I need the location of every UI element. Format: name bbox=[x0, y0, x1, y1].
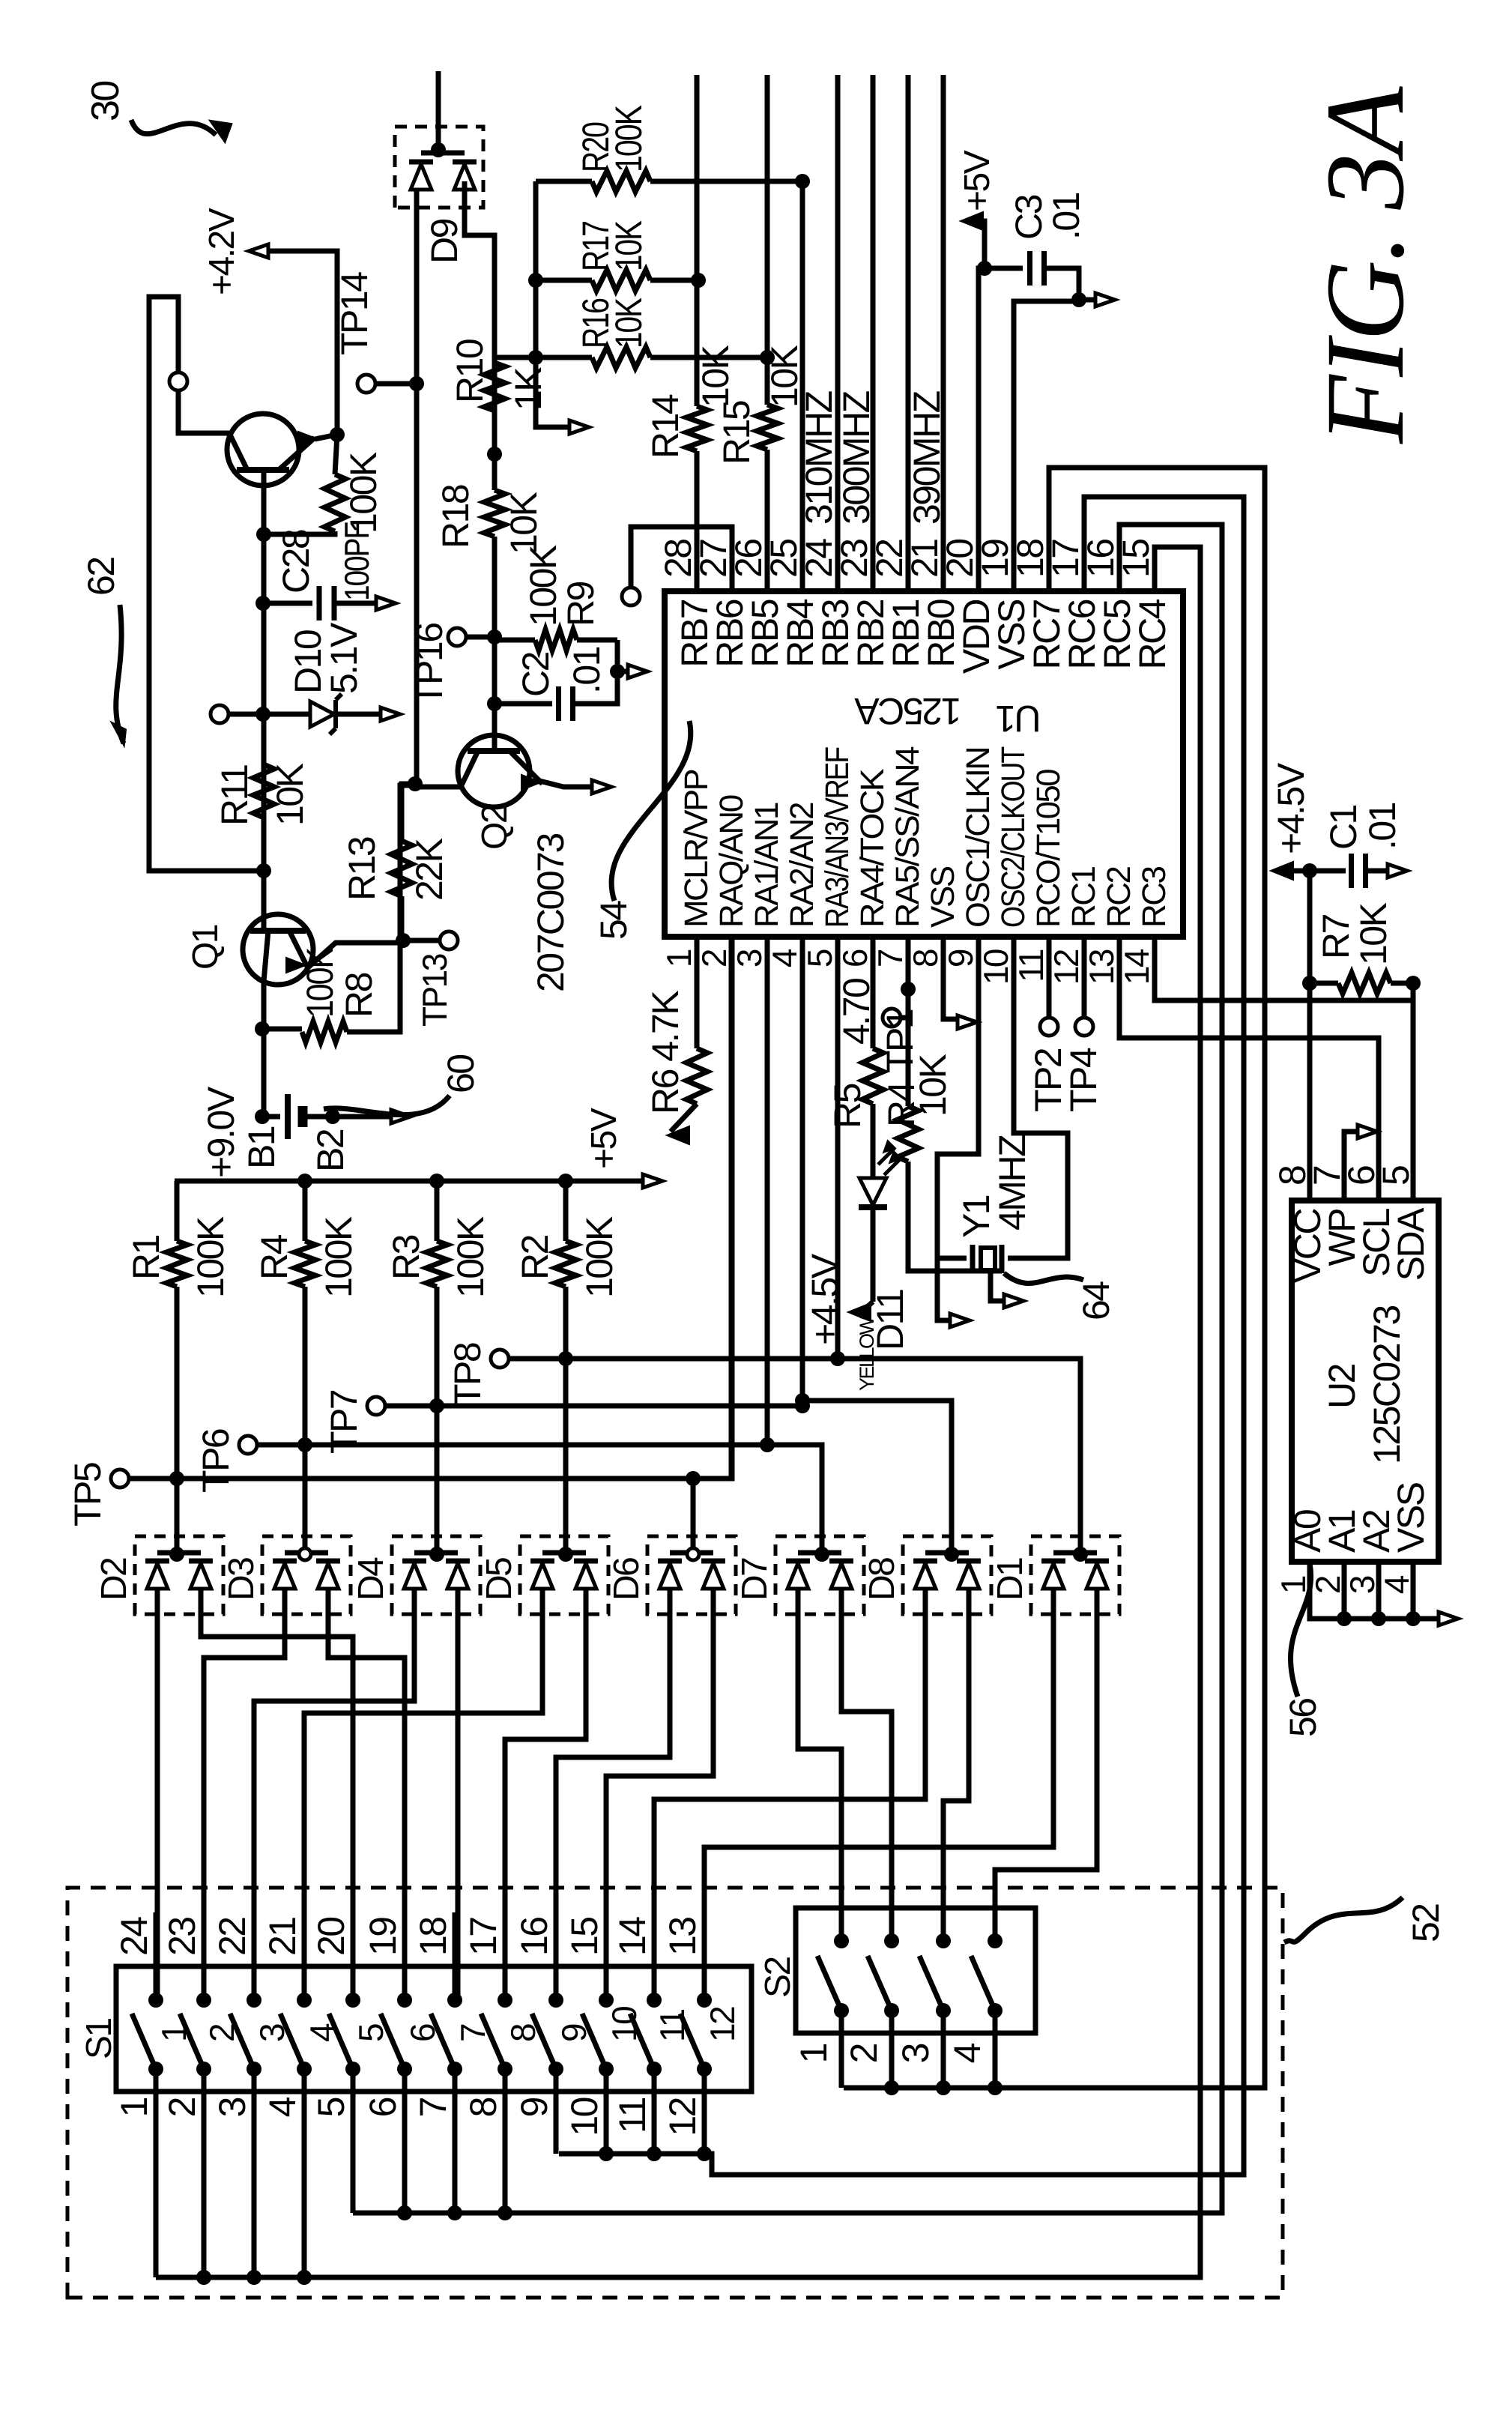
S2 bottom wire 2 bbox=[889, 2011, 895, 2088]
S1 top pin 17 wire bbox=[503, 1966, 508, 2000]
D6 diode b bbox=[703, 1563, 724, 1589]
svg-text:52: 52 bbox=[1405, 1904, 1447, 1942]
R16/R17/R20 bus bbox=[536, 181, 577, 427]
svg-text:14: 14 bbox=[1117, 949, 1156, 985]
svg-text:RA5/SS/AN4: RA5/SS/AN4 bbox=[889, 746, 926, 928]
wire pin15 long line to S1 1-4 bbox=[156, 547, 1200, 2277]
svg-text:7: 7 bbox=[871, 949, 910, 967]
svg-text:.01: .01 bbox=[566, 647, 608, 694]
wire pin18 long line to S2 bbox=[844, 468, 1265, 2088]
svg-text:100K: 100K bbox=[578, 1216, 620, 1298]
test point TP16 bbox=[448, 628, 466, 646]
svg-text:+4.5V: +4.5V bbox=[804, 1253, 846, 1345]
svg-text:MCLR/VPP: MCLR/VPP bbox=[678, 770, 715, 928]
S1 top pin 19 wire bbox=[402, 1966, 408, 2000]
svg-text:207C0073: 207C0073 bbox=[530, 834, 572, 992]
svg-text:2: 2 bbox=[1308, 1576, 1347, 1594]
svg-text:10: 10 bbox=[563, 2098, 605, 2136]
battery B1/B2 +9.0V bbox=[255, 1109, 270, 1124]
test point TP6 bbox=[239, 1436, 257, 1454]
D2 diode b bbox=[190, 1563, 211, 1589]
ground arrow VSS pin8 bbox=[958, 1015, 977, 1029]
+4.5V arrow (row6) bbox=[848, 1303, 871, 1321]
svg-text:4: 4 bbox=[1377, 1575, 1416, 1594]
svg-text:5: 5 bbox=[1375, 1166, 1417, 1186]
S1 switch 3 bbox=[247, 1993, 261, 2008]
svg-text:.01: .01 bbox=[1045, 193, 1087, 240]
svg-text:1: 1 bbox=[659, 949, 698, 967]
dual diode D2 dashed box bbox=[135, 1536, 223, 1614]
wire pin3 row to TP6 column bbox=[767, 937, 822, 1539]
svg-text:+9.0V: +9.0V bbox=[200, 1086, 242, 1178]
S1 top pin 22 wire bbox=[252, 1966, 257, 2000]
capacitor C3 .01 bbox=[985, 266, 1023, 271]
harness wire anode y952 to row y809 bbox=[606, 1614, 713, 2000]
svg-text:R7: R7 bbox=[1315, 914, 1357, 959]
svg-text:100K: 100K bbox=[190, 1216, 232, 1298]
transistor QT (62 block) bbox=[227, 414, 299, 486]
svg-text:62: 62 bbox=[80, 558, 122, 596]
svg-text:4: 4 bbox=[946, 2043, 988, 2063]
svg-text:FIG. 3A: FIG. 3A bbox=[1303, 85, 1427, 444]
resistor R6 4.7K bbox=[686, 1048, 707, 1104]
wire Q1 collector to battery bbox=[261, 979, 267, 1117]
harness wire anode y210 to row y208 bbox=[155, 1614, 160, 2000]
svg-text:RA4/TOCK: RA4/TOCK bbox=[854, 769, 891, 928]
D7 diode a bbox=[787, 1563, 808, 1589]
D2 diode a bbox=[147, 1563, 168, 1589]
resistor R16 10K bbox=[536, 355, 592, 360]
S1 top pin 14 wire bbox=[652, 1966, 657, 2000]
svg-text:R4: R4 bbox=[253, 1234, 295, 1280]
wire pin13 RC2 row to U2 SCL bbox=[1119, 937, 1379, 1201]
svg-text:+4.2V: +4.2V bbox=[202, 208, 242, 295]
node 62 feedback loop bbox=[256, 863, 271, 878]
ground arrow below B2 bbox=[391, 1110, 411, 1123]
svg-text:100K: 100K bbox=[608, 105, 650, 172]
svg-text:4.70: 4.70 bbox=[835, 979, 877, 1045]
svg-text:RCO/T1050: RCO/T1050 bbox=[1030, 770, 1067, 928]
svg-text:10K: 10K bbox=[1352, 902, 1394, 965]
ground arrow crystal bbox=[991, 1273, 1004, 1301]
svg-text:16: 16 bbox=[513, 1918, 555, 1956]
switch S1 box bbox=[116, 1966, 752, 2092]
resistor R17 10K bbox=[536, 278, 592, 283]
ground arrow C2/R9 bbox=[617, 669, 628, 674]
wire pin21 RB0 row bbox=[941, 75, 946, 591]
svg-text:R5: R5 bbox=[826, 1084, 868, 1129]
svg-text:+4.5V: +4.5V bbox=[1270, 762, 1312, 854]
resistor R8 100K bbox=[255, 1021, 270, 1036]
S1 switch 4 bbox=[297, 1993, 312, 2008]
node Q2 base / C2-R9 bbox=[487, 696, 502, 711]
S1 bottom tie 5-8 bbox=[351, 2069, 356, 2213]
svg-text:B2: B2 bbox=[309, 1129, 351, 1172]
svg-text:R8: R8 bbox=[338, 973, 380, 1018]
test point TP13 bbox=[440, 931, 458, 949]
resistor R3 100K row bbox=[435, 1181, 440, 1241]
D3 cathode tie bbox=[285, 1550, 328, 1556]
IC U1 box bbox=[665, 591, 1183, 937]
svg-text:RC4: RC4 bbox=[1131, 599, 1173, 669]
wire pin4 row to TP7 column and D8 feed bbox=[802, 937, 952, 1539]
wire pin7 RA5 row with R4 10K and TP1 bbox=[906, 937, 911, 1106]
svg-text:15: 15 bbox=[563, 1918, 605, 1956]
S1 top pin 20 wire bbox=[351, 1966, 356, 2000]
svg-text:RA1/AN1: RA1/AN1 bbox=[749, 803, 785, 928]
S2 switch 2 bbox=[884, 1933, 899, 1948]
D3 anode wires bbox=[282, 1589, 288, 1614]
svg-text:1: 1 bbox=[793, 2044, 835, 2063]
D8 diode a bbox=[915, 1563, 936, 1589]
resistor R9 100K bbox=[495, 638, 535, 643]
svg-text:C28: C28 bbox=[275, 530, 317, 594]
svg-text:22K: 22K bbox=[408, 838, 450, 901]
svg-text:60: 60 bbox=[440, 1055, 482, 1093]
svg-text:B1: B1 bbox=[241, 1126, 282, 1169]
S1 switch 6 bbox=[397, 1993, 412, 2008]
svg-text:21: 21 bbox=[261, 1918, 303, 1956]
svg-text:R14: R14 bbox=[644, 394, 686, 459]
svg-text:10K: 10K bbox=[608, 298, 650, 348]
wire pin19 VSS row to ground bbox=[1014, 301, 1079, 591]
svg-text:TP6: TP6 bbox=[195, 1429, 237, 1493]
svg-text:100K: 100K bbox=[450, 1216, 492, 1298]
wire D9 anode2 jog to R18 node bbox=[465, 181, 495, 454]
svg-text:100K: 100K bbox=[342, 452, 384, 534]
D7 anode wires bbox=[796, 1589, 801, 1614]
D4 diode b bbox=[447, 1563, 468, 1589]
svg-text:D3: D3 bbox=[222, 1558, 261, 1601]
wire pin5 row to TP8 column and D1 feed bbox=[838, 937, 1080, 1535]
capacitor C28 100PF branch bbox=[255, 596, 270, 611]
svg-text:S1: S1 bbox=[79, 2018, 119, 2059]
harness wire anode y724 to row y406 bbox=[304, 1614, 542, 2000]
wire Q1 base bus bbox=[261, 474, 267, 925]
harness wire anode y894 to row y742 bbox=[556, 1614, 670, 2000]
D4 anode wires bbox=[412, 1589, 417, 1614]
svg-text:R13: R13 bbox=[341, 837, 383, 901]
test point TP1 bbox=[883, 1009, 901, 1027]
svg-text:D7: D7 bbox=[735, 1558, 775, 1601]
dashed enclosure 52 bbox=[67, 1888, 1283, 2298]
transistor Q1 bbox=[243, 914, 313, 985]
ground arrow VSS pin19 bbox=[1095, 293, 1115, 306]
svg-text:5: 5 bbox=[800, 949, 839, 967]
D7 diode b bbox=[831, 1563, 852, 1589]
dual diode D6 dashed box bbox=[647, 1536, 736, 1614]
S1 top pin 16 wire bbox=[554, 1966, 559, 2000]
svg-text:RC2: RC2 bbox=[1101, 866, 1137, 928]
svg-text:4: 4 bbox=[261, 2097, 303, 2117]
svg-text:4MHZ: 4MHZ bbox=[991, 1135, 1033, 1230]
resistor R4 100K row bbox=[303, 1181, 308, 1241]
svg-text:VSS: VSS bbox=[1390, 1482, 1432, 1553]
svg-text:12: 12 bbox=[1047, 949, 1086, 985]
S1 switch 11 bbox=[647, 1993, 662, 2008]
D1 diode a bbox=[1043, 1563, 1064, 1589]
+5V bus vertical bbox=[175, 1179, 641, 1184]
svg-text:10K: 10K bbox=[912, 1054, 954, 1117]
svg-text:12: 12 bbox=[703, 2007, 742, 2042]
wire U2 address pins tie to ground bbox=[1310, 1562, 1440, 1619]
D3 diode a bbox=[274, 1563, 295, 1589]
D5 diode a bbox=[532, 1563, 553, 1589]
svg-text:6: 6 bbox=[362, 2098, 404, 2117]
resistor R11 10K bbox=[253, 764, 274, 818]
S1 top pin 18 wire bbox=[453, 1966, 458, 2000]
svg-text:10K: 10K bbox=[608, 220, 650, 271]
resistor R13 22K bbox=[391, 841, 412, 896]
S1 bottom tie 9-12 bbox=[554, 2069, 559, 2154]
svg-text:OSC1/CLKIN: OSC1/CLKIN bbox=[960, 748, 997, 928]
svg-text:R18: R18 bbox=[435, 485, 477, 549]
svg-text:R2: R2 bbox=[514, 1235, 556, 1280]
+5V arrow bbox=[974, 221, 985, 268]
D4 cathode tie bbox=[414, 1550, 458, 1556]
svg-text:Q2: Q2 bbox=[475, 805, 515, 850]
svg-text:R11: R11 bbox=[214, 765, 255, 826]
svg-text:TP8: TP8 bbox=[447, 1343, 489, 1407]
svg-text:3: 3 bbox=[211, 2098, 253, 2117]
wire pin27 RB6 stub to terminal bbox=[631, 527, 732, 591]
S1 top pin 15 wire bbox=[604, 1966, 609, 2000]
svg-text:10K: 10K bbox=[269, 763, 311, 826]
svg-text:.01: .01 bbox=[1361, 803, 1403, 850]
wire TP8 column bbox=[509, 1356, 838, 1362]
D4 diode a bbox=[404, 1563, 425, 1589]
test point TP14 bbox=[357, 375, 375, 393]
wire U2 VCC row to +4.5V node bbox=[1307, 871, 1313, 1201]
S2 bottom wire 4 bbox=[993, 2011, 998, 2088]
harness wire anode y1123 to row y1190 bbox=[841, 1614, 892, 1938]
wire pin20 VDD row to +5V bbox=[979, 268, 985, 591]
wire pin17 long line to S1 9-12 bbox=[559, 497, 1244, 2175]
resistor R7 10K bbox=[1310, 981, 1338, 986]
svg-text:12: 12 bbox=[662, 2098, 704, 2136]
switch S2 box bbox=[796, 1908, 1035, 2033]
wire pin26 RB5 row with R15 bbox=[765, 450, 770, 591]
svg-text:10K: 10K bbox=[503, 492, 545, 555]
svg-text:2: 2 bbox=[843, 2044, 885, 2063]
crystal Y1 4MHZ loop bbox=[937, 937, 979, 1258]
svg-text:D11: D11 bbox=[869, 1290, 911, 1350]
svg-text:OSC2/CLKOUT: OSC2/CLKOUT bbox=[995, 747, 1032, 928]
wire D6 feed bbox=[691, 1479, 696, 1539]
svg-text:D6: D6 bbox=[607, 1558, 647, 1601]
svg-text:VSS: VSS bbox=[925, 866, 961, 928]
svg-text:20: 20 bbox=[310, 1918, 352, 1956]
dual diode D5 dashed box bbox=[520, 1536, 608, 1614]
wire pin24 RB3 row bbox=[835, 75, 841, 591]
harness wire anode y1293 to row y1259 bbox=[943, 1614, 969, 1938]
harness wire anode y553 to row y339 bbox=[254, 1614, 414, 2000]
svg-text:U1: U1 bbox=[997, 698, 1041, 740]
D7 cathode tie bbox=[798, 1550, 841, 1556]
resistor R18 10K row bbox=[487, 447, 502, 462]
D1 cathode tie bbox=[1053, 1550, 1097, 1556]
dual diode D4 dashed box bbox=[392, 1536, 480, 1614]
wire TP6 column bbox=[257, 1443, 767, 1448]
S2 bottom wire 1 bbox=[839, 2011, 844, 2088]
svg-text:U2: U2 bbox=[1321, 1364, 1363, 1409]
D6 cathode tie bbox=[670, 1550, 713, 1556]
svg-text:R15: R15 bbox=[716, 401, 757, 465]
S1 switch 5 bbox=[345, 1993, 360, 2008]
D2 cathode tie bbox=[157, 1550, 201, 1556]
wire U2 WP to ground bbox=[1344, 1132, 1358, 1201]
wire U2 SDA extension to R7 bbox=[1411, 983, 1416, 1000]
svg-text:64: 64 bbox=[1075, 1281, 1117, 1320]
svg-text:D8: D8 bbox=[862, 1558, 902, 1601]
svg-text:C3: C3 bbox=[1008, 195, 1050, 240]
svg-text:R1: R1 bbox=[125, 1235, 167, 1280]
dual diode D3 dashed box bbox=[262, 1536, 351, 1614]
D6 anode wires bbox=[668, 1589, 673, 1614]
harness wire anode y782 to row y674 bbox=[505, 1614, 586, 2000]
svg-text:RA2/AN2: RA2/AN2 bbox=[784, 803, 820, 928]
S1 top pin 24 wire bbox=[154, 1966, 159, 2000]
svg-text:TP5: TP5 bbox=[67, 1463, 109, 1526]
svg-text:4: 4 bbox=[765, 949, 804, 967]
test point TP7 bbox=[367, 1397, 385, 1415]
svg-text:C1: C1 bbox=[1322, 805, 1364, 850]
test point TP8 bbox=[491, 1350, 509, 1368]
svg-text:D5: D5 bbox=[480, 1558, 519, 1601]
svg-text:TP13: TP13 bbox=[415, 954, 454, 1027]
svg-text:TP16: TP16 bbox=[408, 623, 450, 706]
svg-text:R6 4.7K: R6 4.7K bbox=[644, 991, 686, 1114]
svg-text:7: 7 bbox=[412, 2098, 454, 2117]
resistor R20 100K bbox=[536, 179, 592, 184]
wire pin8 VSS row to ground bbox=[943, 937, 956, 1019]
svg-text:11: 11 bbox=[1011, 949, 1050, 982]
D8 anode wires bbox=[923, 1589, 928, 1614]
wire pin28 RB7 row with R14 bbox=[695, 451, 700, 591]
svg-text:9: 9 bbox=[941, 949, 980, 967]
svg-text:9: 9 bbox=[513, 2098, 555, 2117]
svg-text:+5V: +5V bbox=[584, 1108, 624, 1169]
wire pin2 row to TP5 column bbox=[693, 937, 732, 1479]
svg-text:SDA: SDA bbox=[1390, 1207, 1432, 1281]
svg-text:390MHZ: 390MHZ bbox=[906, 391, 948, 525]
svg-text:17: 17 bbox=[462, 1918, 504, 1956]
dual diode D9 in dashed box bbox=[395, 127, 483, 208]
harness wire anode y380 to row y272 bbox=[204, 1614, 285, 2000]
dual diode D8 dashed box bbox=[903, 1536, 991, 1614]
svg-text:3: 3 bbox=[730, 949, 769, 967]
harness wire anode y1065 to row y1123 bbox=[798, 1614, 841, 1938]
harness wire anode y1464 to row y1328 bbox=[995, 1614, 1097, 1938]
LED D11 bbox=[859, 1204, 887, 1210]
svg-text:8: 8 bbox=[462, 2098, 504, 2117]
svg-text:22: 22 bbox=[211, 1918, 253, 1956]
svg-text:6: 6 bbox=[835, 949, 874, 967]
terminal circle on 62 loop bbox=[169, 372, 187, 390]
harness wire anode y1406 to row y940 bbox=[704, 1614, 1053, 2000]
wire pin22 RB1 row bbox=[906, 75, 911, 591]
S1 switch 10 bbox=[599, 1993, 614, 2008]
wire pin12 RC1 row TP4 bbox=[1082, 937, 1087, 1018]
svg-text:RC3: RC3 bbox=[1136, 866, 1173, 928]
zener diode D10 5.1V branch bbox=[255, 707, 270, 722]
IC U2 box bbox=[1292, 1201, 1439, 1562]
wire pin11 RC0 row TP2 bbox=[1047, 937, 1052, 1018]
S1 switch 12 bbox=[697, 1993, 712, 2008]
svg-text:D1: D1 bbox=[991, 1558, 1030, 1601]
S1 switch 9 bbox=[548, 1993, 563, 2008]
D1 diode b bbox=[1086, 1563, 1107, 1589]
harness wire anode y611 to row y607 bbox=[456, 1614, 461, 2000]
svg-text:13: 13 bbox=[1082, 949, 1121, 985]
svg-text:10K: 10K bbox=[695, 345, 737, 408]
wire pin25 RB4 row to R20 bbox=[800, 181, 805, 591]
svg-text:14: 14 bbox=[611, 1917, 653, 1956]
svg-text:8: 8 bbox=[906, 949, 945, 967]
test point TP5 bbox=[111, 1470, 129, 1488]
LED D11 emission arrows bbox=[878, 1148, 901, 1175]
+4.5V node arrow and C1 bbox=[1302, 863, 1317, 878]
wire pin16 long line to S1 5-8 bbox=[353, 525, 1222, 2213]
S2 switch 4 bbox=[988, 1933, 1003, 1948]
D8 diode b bbox=[958, 1563, 979, 1589]
S1 switch 7 bbox=[447, 1993, 462, 2008]
svg-text:24: 24 bbox=[113, 1917, 155, 1956]
svg-text:2: 2 bbox=[161, 2098, 203, 2117]
svg-text:S2: S2 bbox=[758, 1957, 798, 1998]
D1 anode wires bbox=[1051, 1589, 1056, 1614]
D3 diode b bbox=[318, 1563, 339, 1589]
wire pin23 RB2 row bbox=[871, 75, 876, 591]
svg-text:RC1: RC1 bbox=[1065, 866, 1102, 928]
harness wire anode y268 to row y471 bbox=[201, 1614, 353, 2000]
svg-text:11: 11 bbox=[611, 2098, 653, 2133]
svg-text:D2: D2 bbox=[94, 1558, 134, 1601]
S1 top pin 21 wire bbox=[302, 1966, 307, 2000]
S2 switch 1 bbox=[834, 1933, 849, 1948]
wire Q1 emitter row / TP13 bbox=[399, 896, 405, 943]
wire pin6 RA4/TOCK row with R5 and D11 bbox=[871, 937, 876, 1048]
svg-text:56: 56 bbox=[1282, 1699, 1324, 1737]
S1 switch 2 bbox=[196, 1993, 211, 2008]
resistor 100K at QT emitter bbox=[256, 527, 271, 542]
wire TP7 column bbox=[385, 1401, 802, 1406]
svg-text:5: 5 bbox=[310, 2098, 352, 2117]
capacitor C2 .01 bbox=[495, 701, 552, 707]
+4.2V power arrow and wire bbox=[259, 251, 337, 435]
svg-text:18: 18 bbox=[412, 1918, 454, 1956]
svg-text:13: 13 bbox=[662, 1918, 704, 1956]
wire pin1 MCLR row to R6 bbox=[695, 937, 700, 1048]
svg-text:310MHZ: 310MHZ bbox=[798, 391, 840, 525]
svg-text:30: 30 bbox=[84, 82, 127, 121]
svg-text:1: 1 bbox=[113, 2098, 155, 2117]
svg-text:300MHZ: 300MHZ bbox=[835, 391, 877, 525]
svg-text:3: 3 bbox=[1343, 1576, 1382, 1594]
svg-text:5.1V: 5.1V bbox=[323, 622, 365, 694]
dual diode D7 dashed box bbox=[775, 1536, 864, 1614]
svg-text:3: 3 bbox=[895, 2044, 937, 2063]
svg-text:54: 54 bbox=[593, 901, 635, 940]
svg-text:RAQ/AN0: RAQ/AN0 bbox=[713, 795, 750, 928]
svg-text:23: 23 bbox=[161, 1918, 203, 1956]
S1 top pin 23 wire bbox=[202, 1966, 207, 2000]
svg-text:10: 10 bbox=[976, 949, 1015, 985]
S2 bottom wire 3 bbox=[941, 2011, 946, 2088]
svg-text:R9: R9 bbox=[560, 582, 602, 626]
svg-text:RA3/AN3/VREF: RA3/AN3/VREF bbox=[819, 747, 856, 928]
D5 cathode tie bbox=[542, 1550, 586, 1556]
